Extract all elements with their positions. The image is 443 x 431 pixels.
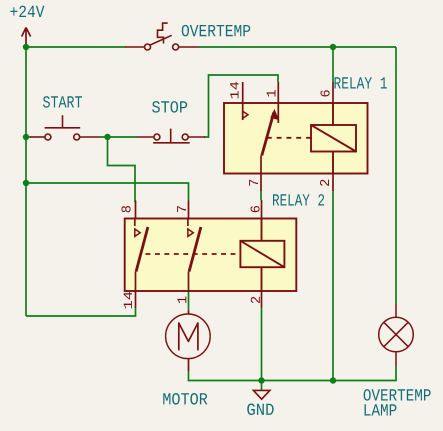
- switch START (push button NO): [30, 115, 100, 140]
- wire gnd stub: [261, 381, 263, 391]
- motor M: [166, 314, 211, 359]
- relay K2 linkage dashes: [146, 253, 241, 255]
- relay K2 pin number 1: [177, 297, 186, 303]
- wire right drop to lamp: [395, 47, 397, 304]
- label OVERTEMP: [182, 25, 250, 37]
- relay K2 pin 6 stub: [261, 200, 263, 219]
- relay K2 pole1 leg to pin 14: [135, 272, 137, 292]
- label RELAY 2: [273, 194, 324, 205]
- relay K2 pole1 pin 8 inner line: [134, 219, 136, 227]
- relay K2 pole2 fixed contact triangle: [188, 229, 193, 237]
- relay K1 pin 7 stub: [260, 174, 262, 192]
- relay K2 body: [125, 219, 297, 292]
- relay K2 pin number 2: [251, 297, 260, 303]
- label GND: [247, 404, 273, 416]
- relay K2 pin 7 stub: [188, 201, 190, 219]
- relay K2 pole2 pin 7 inner line: [187, 219, 189, 227]
- relay K1 pin number 1: [267, 90, 276, 96]
- relay K1 pin 1 stub: [277, 82, 279, 123]
- relay K2 pole1 movable contact bar: [136, 227, 148, 272]
- label START: [43, 96, 82, 108]
- label MOTOR: [163, 393, 207, 405]
- wire STOP output riser to relay1 pin 1: [204, 75, 278, 137]
- relay K1 movable contact bar: [262, 113, 274, 156]
- junction rail to relay2 pin7 feed: [23, 180, 29, 186]
- relay K2 pin number 6: [250, 206, 259, 212]
- relay K1 common leg to pin 7: [260, 156, 262, 174]
- motor M top stub: [188, 310, 190, 314]
- label +24V: [10, 6, 44, 17]
- label OVERTEMP LAMP line2: [365, 404, 397, 415]
- wire overtemp rail to relay1 pin 6: [332, 47, 334, 82]
- junction ground rail at GND: [258, 377, 264, 383]
- relay K2 pole1 fixed contact triangle: [135, 229, 140, 237]
- junction rail at START: [23, 134, 29, 140]
- relay K2 pin number 7: [177, 206, 186, 212]
- wire left +24V rail: [25, 47, 27, 316]
- wire rail to START: [26, 136, 31, 138]
- wire relay2 pin 2 to ground rail: [261, 308, 263, 381]
- relay K2 pole2 movable contact bar: [189, 227, 201, 272]
- wire relay2 pin 1 to motor: [188, 291, 190, 310]
- junction at +24V arrow: [23, 44, 29, 50]
- power symbol +24V: [22, 28, 31, 47]
- relay K1 body: [224, 103, 368, 174]
- junction ground rail at relay1 pin2: [330, 377, 336, 383]
- wire top rail left segment: [26, 46, 126, 48]
- label RELAY 1: [335, 77, 387, 88]
- relay K2 pin number 14: [124, 292, 132, 309]
- lamp overtemp: [379, 304, 414, 367]
- wire rail to relay2 pin 7: [26, 183, 189, 201]
- label OVERTEMP LAMP line1: [364, 389, 431, 401]
- wire top rail right segment (after OVERTEMP switch): [199, 46, 397, 48]
- label STOP: [152, 101, 187, 113]
- wire START to STOP: [100, 136, 137, 138]
- relay K2 pin number 8: [121, 206, 130, 212]
- wire holding contact from junction to relay2 pin 8: [108, 137, 136, 202]
- relay K1 fixed contact triangle (pin 14): [243, 111, 248, 118]
- relay K2 pin 14 stub: [135, 291, 137, 308]
- junction START/STOP holding node: [104, 134, 110, 140]
- relay K1 pin number 6: [320, 90, 329, 96]
- relay K1 pin number 7: [249, 180, 258, 186]
- ground symbol: [253, 390, 270, 399]
- relay K2 pole2 leg to pin 1: [188, 272, 190, 292]
- motor M glyph: [179, 323, 198, 350]
- relay K1 contact arrowhead: [270, 109, 279, 121]
- switch OVERTEMP (thermal, NO): [125, 23, 199, 50]
- switch STOP (push button NC): [137, 129, 205, 143]
- motor bottom stub: [188, 359, 190, 371]
- relay K1 pin number 2: [320, 180, 329, 186]
- relay K2 coil: [240, 219, 284, 292]
- relay K1 pin 14 stub: [242, 82, 244, 120]
- relay K1 pin 2 stub: [332, 174, 334, 192]
- wire relay1 pin 2 to ground rail: [332, 191, 334, 381]
- relay K2 pin 8 stub: [135, 201, 137, 219]
- wire relay1 pin 7 to relay2 pin 6: [260, 191, 262, 200]
- wire bottom left run to relay2 pin 14: [26, 308, 136, 316]
- relay K1 pin 6 stub: [332, 82, 334, 103]
- wire motor to ground rail: [189, 366, 397, 381]
- relay K1 linkage dashes: [267, 137, 311, 139]
- relay K1 coil: [311, 103, 356, 174]
- relay K2 pin 2 stub: [261, 291, 263, 308]
- relay K1 pin number 14: [230, 82, 238, 99]
- junction top rail to relay1 coil: [330, 44, 336, 50]
